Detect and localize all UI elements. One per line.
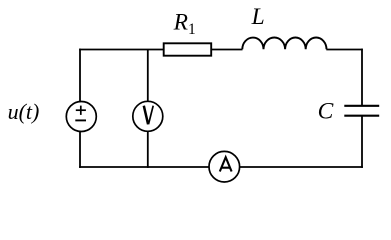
ammeter letter A	[220, 157, 232, 171]
voltmeter V1 circle	[133, 101, 163, 131]
wire voltmeter branch lower	[147, 131, 149, 168]
ammeter A1 circle	[209, 151, 240, 182]
wire left vertical upper (source top lead)	[79, 49, 81, 102]
inductor L	[242, 38, 326, 50]
wire right vertical upper (to capacitor)	[361, 49, 363, 106]
wire inductor to top-right corner	[326, 49, 363, 51]
wire right vertical lower (capacitor to bottom)	[361, 116, 363, 168]
source u(t) circle	[66, 102, 96, 132]
resistor R1	[164, 43, 212, 55]
wire top-left horizontal	[79, 49, 164, 51]
svg-text:L: L	[251, 4, 265, 30]
wire resistor to inductor	[211, 49, 243, 51]
svg-text:C: C	[318, 99, 334, 125]
wire bottom-left horizontal	[79, 166, 209, 168]
wire left vertical lower (source bottom lead)	[79, 131, 81, 168]
svg-text:u(t): u(t)	[8, 99, 40, 124]
wire voltmeter branch upper	[147, 50, 149, 103]
source plus sign	[76, 109, 86, 111]
source minus sign	[75, 119, 86, 121]
wire bottom-right horizontal	[240, 166, 363, 168]
capacitor C plates	[344, 105, 379, 107]
voltmeter letter V	[144, 106, 153, 125]
